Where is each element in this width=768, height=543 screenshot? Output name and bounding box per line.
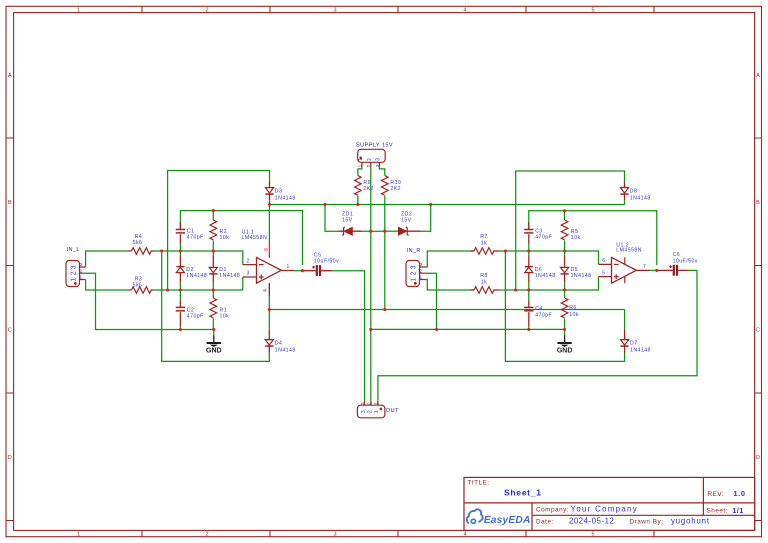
svg-text:5: 5 bbox=[591, 532, 594, 538]
svg-text:yugohunt: yugohunt bbox=[671, 516, 710, 525]
svg-text:D: D bbox=[756, 455, 760, 461]
junction dots right channel bbox=[504, 249, 507, 252]
svg-text:10k: 10k bbox=[569, 312, 579, 318]
svg-text:A: A bbox=[756, 73, 760, 79]
svg-text:3: 3 bbox=[333, 8, 336, 14]
capacitor C3 bbox=[524, 222, 552, 251]
resistor R10 bbox=[382, 174, 402, 195]
wire output node right bbox=[650, 269, 657, 271]
svg-text:GND: GND bbox=[206, 348, 222, 355]
svg-text:LM4558N: LM4558N bbox=[616, 248, 642, 254]
svg-text:1.0: 1.0 bbox=[734, 489, 746, 498]
svg-text:15V: 15V bbox=[342, 218, 353, 224]
diode D4 bbox=[265, 330, 295, 354]
svg-text:D1: D1 bbox=[219, 267, 227, 273]
svg-text:1N4148: 1N4148 bbox=[186, 273, 207, 279]
diode D8 bbox=[620, 182, 650, 201]
EasyEDA logo bbox=[467, 509, 531, 526]
wire R3 to opamp plus row bbox=[154, 277, 243, 290]
svg-text:LM4558N: LM4558N bbox=[242, 235, 268, 241]
capacitor C1 bbox=[176, 222, 204, 251]
svg-text:2: 2 bbox=[205, 8, 208, 14]
svg-text:470pF: 470pF bbox=[535, 313, 552, 319]
svg-text:Date:: Date: bbox=[536, 518, 554, 525]
svg-text:2: 2 bbox=[367, 410, 373, 413]
svg-text:1N4148: 1N4148 bbox=[219, 273, 240, 279]
svg-text:Company:: Company: bbox=[536, 506, 569, 513]
svg-text:3: 3 bbox=[333, 532, 336, 538]
svg-text:D5: D5 bbox=[571, 267, 579, 273]
resistor R2 bbox=[210, 211, 229, 251]
svg-text:REV:: REV: bbox=[708, 491, 725, 498]
svg-text:470pF: 470pF bbox=[187, 235, 204, 241]
resistor R1 bbox=[210, 290, 229, 330]
wire output node bbox=[294, 270, 303, 272]
wire GND row right bbox=[371, 328, 565, 330]
frame ticks right bbox=[755, 138, 762, 521]
svg-text:D8: D8 bbox=[630, 188, 638, 194]
svg-text:C: C bbox=[756, 328, 760, 334]
svg-text:3: 3 bbox=[247, 271, 250, 277]
svg-text:R7: R7 bbox=[480, 234, 488, 240]
svg-text:D: D bbox=[8, 455, 12, 461]
svg-text:EasyEDA: EasyEDA bbox=[484, 515, 531, 526]
svg-text:3: 3 bbox=[361, 410, 367, 413]
wire ZD1 to mid vertical bbox=[362, 230, 385, 232]
wire IN_L.3 to R4 bbox=[86, 251, 128, 267]
wire IN_L.2 down to bottom row bbox=[86, 273, 214, 329]
wire IN_R.2 down to GND row bbox=[426, 273, 437, 329]
resistor R8 bbox=[471, 273, 500, 293]
zener ZD2 bbox=[398, 212, 420, 236]
capacitor C4 bbox=[524, 290, 552, 329]
svg-text:TITLE:: TITLE: bbox=[468, 480, 490, 487]
svg-text:1: 1 bbox=[374, 410, 380, 413]
svg-text:470pF: 470pF bbox=[535, 235, 552, 241]
junction dots left channel bbox=[160, 249, 163, 252]
wire pin8 to rail bbox=[268, 205, 270, 245]
ground GND right bbox=[557, 329, 573, 354]
svg-text:8: 8 bbox=[264, 248, 270, 251]
frame column numbers bottom bbox=[77, 532, 595, 538]
svg-text:1: 1 bbox=[411, 278, 418, 282]
svg-text:1N4148: 1N4148 bbox=[275, 195, 296, 201]
svg-text:2K2: 2K2 bbox=[363, 186, 374, 192]
diode D2 bbox=[176, 251, 207, 290]
diode D5 bbox=[561, 251, 592, 290]
svg-text:2: 2 bbox=[247, 258, 250, 264]
diode D1 bbox=[209, 251, 240, 290]
wire R4 to opamp minus row bbox=[154, 251, 243, 265]
svg-text:R6: R6 bbox=[569, 305, 577, 311]
svg-text:C: C bbox=[8, 328, 12, 334]
svg-text:5: 5 bbox=[602, 271, 605, 277]
wire C5 to OUT pin1 bbox=[332, 271, 365, 401]
svg-text:1k: 1k bbox=[481, 280, 487, 286]
resistor R9 bbox=[355, 174, 374, 205]
svg-text:2: 2 bbox=[71, 271, 78, 275]
svg-text:SUPPLY 15V: SUPPLY 15V bbox=[356, 143, 393, 149]
title block bbox=[464, 477, 755, 530]
ground GND left bbox=[206, 330, 222, 355]
resistor R3 bbox=[128, 277, 154, 294]
connector IN_L bbox=[66, 247, 86, 287]
svg-text:D6: D6 bbox=[535, 267, 543, 273]
svg-text:470pF: 470pF bbox=[187, 314, 204, 320]
wire IN_R.1 down to R8 bbox=[426, 280, 474, 291]
svg-text:A: A bbox=[8, 73, 12, 79]
frame row letters right bbox=[756, 73, 760, 461]
svg-text:1N4148: 1N4148 bbox=[630, 195, 651, 201]
svg-text:4: 4 bbox=[263, 289, 269, 292]
wire IN_R.3 to R7 bbox=[426, 251, 474, 267]
wire C6 to bottom loop bbox=[688, 269, 698, 271]
svg-text:OUT: OUT bbox=[386, 408, 399, 414]
svg-text:R8: R8 bbox=[480, 273, 488, 279]
svg-text:Sheet:: Sheet: bbox=[707, 508, 728, 515]
wire OUT pin3 loop from C6 bbox=[378, 270, 697, 401]
svg-text:5: 5 bbox=[591, 8, 594, 14]
wire SUPPLY.1 to R9 bbox=[358, 167, 362, 174]
wire D8 to rail bbox=[624, 200, 626, 204]
svg-text:IN_R: IN_R bbox=[407, 248, 421, 254]
wire top loop right to D8 bbox=[516, 171, 625, 290]
wire ZD2 up to rail bbox=[421, 205, 431, 232]
wire V- row corner to D7 bbox=[624, 310, 626, 331]
frame row letters left bbox=[8, 73, 12, 461]
connector OUT bbox=[357, 401, 399, 418]
svg-text:C4: C4 bbox=[535, 306, 543, 312]
svg-text:15V: 15V bbox=[401, 218, 412, 224]
svg-text:3: 3 bbox=[71, 265, 78, 269]
wire IN_L.1 down to R3 row bbox=[86, 280, 128, 291]
svg-text:10k: 10k bbox=[220, 235, 230, 241]
wire D3 to rail bbox=[269, 200, 271, 204]
svg-text:Drawn By:: Drawn By: bbox=[630, 518, 664, 525]
wire top loop to D3 bbox=[168, 171, 270, 291]
pin 8 lead U1.1 bbox=[264, 244, 270, 258]
svg-text:C6: C6 bbox=[673, 252, 681, 258]
svg-text:2: 2 bbox=[367, 158, 373, 161]
diode D6 bbox=[525, 251, 556, 290]
svg-text:10uF/50v: 10uF/50v bbox=[673, 258, 698, 264]
svg-text:2024-05-12: 2024-05-12 bbox=[569, 516, 614, 525]
svg-text:4: 4 bbox=[463, 8, 466, 14]
frame ticks top bbox=[142, 6, 654, 12]
op-amp U1.2 bbox=[599, 242, 651, 283]
svg-text:1N4148: 1N4148 bbox=[535, 273, 556, 279]
capacitor C5 bbox=[303, 253, 340, 277]
wire D7 bottom loop bbox=[505, 251, 624, 361]
svg-text:1: 1 bbox=[77, 532, 80, 538]
svg-text:1N4148: 1N4148 bbox=[630, 347, 651, 353]
resistor R4 bbox=[128, 234, 154, 254]
wire R8 to opamp2 plus row bbox=[499, 277, 599, 290]
svg-text:4: 4 bbox=[463, 532, 466, 538]
wire feedback top row bbox=[180, 211, 302, 265]
svg-text:6: 6 bbox=[602, 258, 605, 264]
svg-text:2: 2 bbox=[205, 532, 208, 538]
wire SUPPLY.3 to R10 bbox=[379, 167, 384, 174]
diode D3 bbox=[265, 182, 295, 201]
diode D7 bbox=[621, 330, 651, 353]
junction dots middle bbox=[323, 203, 326, 206]
pin 4 lead U1.1 bbox=[263, 283, 269, 296]
connector SUPPLY 15V bbox=[356, 143, 393, 168]
svg-text:10uF/50v: 10uF/50v bbox=[314, 259, 339, 265]
resistor R6 bbox=[561, 290, 579, 329]
wire rail branch to ZD1 bbox=[325, 205, 339, 232]
wire V+ rail bbox=[270, 204, 625, 206]
svg-text:GND: GND bbox=[557, 348, 573, 355]
zener ZD1 bbox=[339, 212, 362, 236]
svg-text:1N4148: 1N4148 bbox=[275, 347, 296, 353]
svg-text:5k6: 5k6 bbox=[133, 283, 143, 289]
wire SUPPLY.2 middle vertical to OUT pin2 bbox=[370, 167, 372, 401]
wire R7 to opamp2 minus row bbox=[499, 251, 599, 264]
wire R10 down to ZD row and V- row bbox=[384, 196, 386, 310]
svg-text:10k: 10k bbox=[220, 314, 230, 320]
op-amp U1.1 bbox=[242, 230, 295, 284]
svg-text:1k: 1k bbox=[481, 241, 487, 247]
svg-text:B: B bbox=[8, 200, 12, 206]
svg-text:10k: 10k bbox=[571, 235, 581, 241]
svg-text:IN_L: IN_L bbox=[67, 247, 80, 253]
wire D4 bottom loop bbox=[162, 251, 270, 361]
wire V- row bbox=[269, 309, 624, 311]
svg-text:Sheet_1: Sheet_1 bbox=[504, 487, 542, 497]
svg-text:D2: D2 bbox=[186, 267, 194, 273]
svg-text:1N4148: 1N4148 bbox=[571, 273, 592, 279]
svg-text:7: 7 bbox=[643, 264, 646, 270]
svg-text:1/1: 1/1 bbox=[733, 508, 744, 515]
svg-text:2: 2 bbox=[411, 271, 418, 275]
svg-text:C5: C5 bbox=[314, 253, 322, 259]
svg-text:B: B bbox=[756, 200, 760, 206]
svg-text:D7: D7 bbox=[630, 341, 638, 347]
svg-text:5k6: 5k6 bbox=[133, 240, 143, 246]
svg-text:3: 3 bbox=[376, 158, 382, 161]
svg-text:1: 1 bbox=[287, 264, 290, 270]
capacitor C2 bbox=[176, 290, 204, 330]
wire feedback top row right bbox=[529, 211, 657, 265]
svg-text:1: 1 bbox=[77, 8, 80, 14]
resistor R5 bbox=[561, 211, 580, 251]
svg-text:D4: D4 bbox=[275, 341, 283, 347]
resistor R7 bbox=[471, 234, 500, 254]
svg-text:1: 1 bbox=[71, 278, 78, 282]
svg-text:Your Company: Your Company bbox=[571, 505, 639, 514]
wire pin4 to V- node bbox=[268, 296, 270, 330]
svg-text:2K2: 2K2 bbox=[390, 186, 401, 192]
svg-text:3: 3 bbox=[411, 265, 418, 269]
frame ticks bottom bbox=[142, 530, 654, 536]
svg-text:D3: D3 bbox=[275, 188, 283, 194]
frame ticks left bbox=[6, 138, 14, 521]
connector IN_R bbox=[406, 248, 426, 287]
capacitor C6 bbox=[657, 252, 698, 275]
wire mid to ZD2 bbox=[385, 230, 398, 232]
frame column numbers top bbox=[77, 8, 595, 14]
